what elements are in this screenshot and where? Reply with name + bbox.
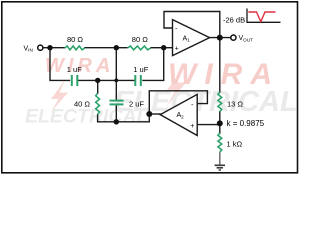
resistor R2 80ohm	[128, 46, 151, 50]
notch response icon curve	[248, 12, 275, 22]
junction k node	[217, 120, 223, 126]
wire VOUT junction down to R4	[219, 38, 221, 92]
resistor R5 1kohm (vertical)	[218, 133, 222, 152]
resistor R4 13ohm (vertical)	[218, 92, 222, 112]
svg-text:+: +	[190, 123, 194, 130]
svg-text:80 Ω: 80 Ω	[67, 35, 83, 44]
wire R5 to ground	[219, 152, 221, 165]
wire R2 to node C	[151, 47, 164, 49]
wire node B to R2	[116, 47, 127, 49]
wire node D to C2 (crosses node E)	[98, 79, 134, 81]
wire R4 to k node	[219, 112, 221, 124]
op-amp A1	[173, 20, 210, 56]
terminal VIN	[38, 45, 43, 50]
wire input junction down to mid rail and to C1	[50, 48, 70, 81]
wire A2 output junction to A2 apex	[149, 113, 160, 115]
wire A2 feedback loop to inverting input	[149, 91, 207, 114]
svg-text:k = 0.9875: k = 0.9875	[227, 119, 265, 128]
wire bottom rail to A2 output junction	[98, 114, 150, 122]
junction VOUT node	[217, 35, 223, 41]
capacitor C1 1uF	[72, 75, 78, 86]
svg-text:-26 dB: -26 dB	[223, 15, 245, 24]
svg-text:1 kΩ: 1 kΩ	[227, 140, 243, 149]
wire input junction to R1	[50, 47, 65, 49]
junction node C	[161, 45, 166, 50]
junction input node	[47, 45, 52, 50]
wire A2 noninverting input to k node	[197, 124, 220, 126]
svg-text:+: +	[175, 46, 179, 53]
svg-text:1 uF: 1 uF	[133, 65, 148, 74]
wire node B down to node E	[115, 48, 117, 81]
wire R3 to bottom rail	[97, 115, 99, 122]
wire node C to A1 noninverting input	[164, 47, 173, 49]
svg-text:2 uF: 2 uF	[129, 99, 144, 108]
svg-text:40 Ω: 40 Ω	[74, 99, 90, 108]
wire VIN terminal to input junction	[43, 47, 50, 49]
notch response icon axes	[247, 9, 281, 23]
wire R1 to node B	[85, 47, 116, 49]
svg-text:13 Ω: 13 Ω	[227, 99, 243, 108]
ground	[215, 165, 225, 170]
junction node B	[114, 45, 119, 50]
resistor R1 80ohm	[65, 46, 85, 50]
junction A2 output node	[146, 111, 152, 117]
junction bottom rail node	[114, 119, 119, 124]
terminal VOUT	[231, 35, 236, 40]
wire C2 to corner up to node C	[143, 48, 164, 81]
svg-text:1 uF: 1 uF	[67, 65, 82, 74]
junction node E	[114, 79, 118, 83]
wire node D down to R3	[97, 80, 99, 93]
wire A1 apex to VOUT terminal	[210, 37, 231, 39]
op-amp A2 (points left)	[160, 94, 197, 135]
capacitor C2 1uF	[135, 75, 141, 86]
capacitor C3 2uF (vertical)	[110, 101, 124, 105]
wire node E down to C3 top plate	[115, 80, 117, 100]
resistor R3 40ohm (vertical)	[96, 93, 100, 114]
wire A1 feedback loop output to inverting input	[164, 12, 220, 38]
wire C1 to node D	[79, 79, 98, 81]
wire k node down to R5	[219, 123, 221, 133]
junction node D	[95, 78, 100, 83]
wire C3 bottom plate down to bottom rail	[115, 104, 117, 121]
svg-text:80 Ω: 80 Ω	[132, 35, 148, 44]
